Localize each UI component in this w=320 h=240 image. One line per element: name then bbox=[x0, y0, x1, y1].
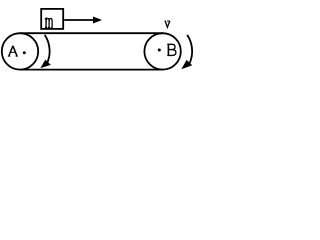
label v bbox=[165, 21, 170, 27]
block m bbox=[41, 9, 63, 29]
center dot B bbox=[158, 49, 161, 52]
pulley B circle bbox=[144, 33, 180, 69]
belt bottom line bbox=[20, 69, 163, 71]
rotation arrow at B (clockwise) bbox=[181, 35, 192, 69]
pulley A circle bbox=[2, 33, 38, 69]
label m bbox=[45, 18, 53, 27]
label B bbox=[167, 44, 176, 55]
label A bbox=[8, 46, 18, 56]
rotation arrow at A (clockwise) bbox=[40, 35, 50, 68]
center dot A bbox=[23, 51, 26, 54]
belt top line bbox=[20, 32, 163, 34]
arrow from block (force/velocity of m) bbox=[64, 17, 102, 24]
